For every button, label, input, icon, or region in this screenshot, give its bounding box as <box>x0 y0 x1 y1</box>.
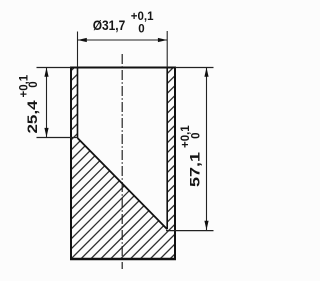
svg-text:0: 0 <box>138 24 144 36</box>
dim 57,1: value text (rotated) <box>180 125 203 187</box>
dim 25,4: top arrowhead <box>44 68 48 77</box>
dim Ø31,7: right arrowhead <box>158 38 167 42</box>
svg-text:+0,1: +0,1 <box>131 11 154 23</box>
dim Ø31,7: right extension line <box>166 31 168 68</box>
svg-text:0: 0 <box>190 132 202 138</box>
dim 57,1: top extension line (face extended right) <box>175 67 214 69</box>
section hatching <box>71 68 175 260</box>
part top face <box>71 67 175 69</box>
centerline <box>121 54 123 269</box>
dim 25,4: bottom arrowhead <box>44 128 48 137</box>
dim 57,1: dimension line <box>206 68 208 231</box>
dim 57,1: top arrowhead <box>204 68 208 77</box>
dim 57,1: bottom extension line <box>166 230 214 232</box>
dim 25,4: dimension line <box>46 68 48 138</box>
bore left inner edge <box>77 68 79 139</box>
svg-text:0: 0 <box>28 81 40 87</box>
part right outer wall <box>174 67 176 260</box>
dim Ø31,7: left arrowhead <box>78 38 87 42</box>
bore right inner edge <box>166 68 168 230</box>
dim 25,4: bottom extension line <box>37 137 78 139</box>
svg-text:Ø31,7: Ø31,7 <box>93 18 126 33</box>
part left outer wall <box>70 67 72 260</box>
dim 57,1: bottom arrowhead <box>204 221 208 230</box>
dim Ø31,7: tolerance +0,1 / 0 <box>131 11 154 36</box>
dim Ø31,7: dimension line <box>78 39 168 41</box>
bore bottom slant edge <box>78 138 168 229</box>
svg-text:25,4: 25,4 <box>25 100 40 134</box>
svg-text:57,1: 57,1 <box>188 152 202 187</box>
dim 25,4: value text (rotated) <box>18 74 40 133</box>
dim 25,4: top extension line (face extended left) <box>37 67 72 69</box>
dim Ø31,7: left extension line <box>77 32 79 68</box>
part bottom face <box>70 258 176 261</box>
